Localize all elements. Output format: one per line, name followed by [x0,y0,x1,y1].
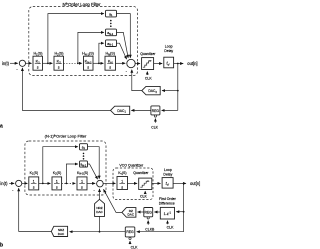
svg-text:-: - [93,188,95,193]
svg-text:Loop: Loop [165,45,173,49]
wire aN-2 out [117,32,129,58]
svg-text:s: s [58,66,60,70]
VCO quantizer dashed box [113,168,153,200]
integrator K2 [52,171,62,190]
svg-text:Quantizer: Quantizer [133,171,149,175]
svg-text:K1(S): K1(S) [30,171,38,176]
junction [47,62,49,64]
svg-text:HN-1(S): HN-1(S) [82,52,94,57]
wire differencer to REG2 [154,211,160,213]
wire aN-2 out [88,164,98,179]
svg-text:CLK: CLK [167,225,174,229]
wire DAC1 to S1 [22,68,110,111]
integrator Kv [117,171,128,190]
wire in [10,62,18,64]
tap wire to aN-2 [66,164,78,183]
svg-text:Loop: Loop [164,168,172,172]
dashed chain wire [62,182,76,184]
differencer 1-z-1 [160,207,174,219]
junction [98,62,100,64]
wire S1 to H1 [26,62,32,64]
tap wire to aN-2 [78,32,104,63]
wire HN to summer S2 [116,62,126,64]
svg-text:Difference: Difference [159,201,175,205]
svg-text:DAC: DAC [128,213,135,217]
tap wire to a1 [43,147,78,184]
feedback wire down [177,64,179,111]
svg-text:Delay: Delay [163,173,172,177]
wire REG3 to NRZ DAC2 [70,231,126,233]
svg-text:in(t): in(t) [0,181,8,186]
svg-text:td: td [166,61,169,67]
svg-text:-: - [16,66,18,71]
svg-text:First Order: First Order [159,197,177,201]
wire REG2 to RZ DAC [138,211,144,213]
wire NRZ DAC2 to S3 [19,188,52,231]
NRZ DAC horizontal [51,226,67,236]
svg-text:1: 1 [121,179,123,183]
wire quantizer to loop delay [154,63,163,65]
svg-text:1: 1 [56,180,58,184]
svg-text:HN(S): HN(S) [105,52,114,57]
wire S2 to quantizer [135,63,140,65]
coefficient aN-1 [106,40,117,47]
integrator H2 [54,52,64,71]
dots [83,153,85,155]
loop delay U4 [162,168,173,188]
svg-text:-: - [12,187,14,192]
svg-text:s: s [109,66,111,70]
junction [177,90,179,92]
svg-text:KN-1(S): KN-1(S) [77,171,88,176]
quantizer U3 [133,171,151,190]
integrator H1 [33,52,43,71]
svg-text:in(t): in(t) [2,61,10,66]
svg-text:s: s [56,186,58,190]
wire a1 out [117,14,131,58]
svg-text:b: b [0,242,3,248]
junction [77,62,79,64]
svg-text:Kv(S): Kv(S) [118,171,126,176]
loop filter dashed box (b) [25,141,106,195]
wire NRZ DAC down [99,216,101,231]
junction [183,211,185,213]
CLK of differencer [167,221,169,225]
svg-text:REG: REG [126,230,134,234]
wire K1 to K2 [39,182,51,184]
wire REG to DAC1 [131,109,151,111]
svg-text:s: s [121,185,123,189]
wire to out [173,182,186,184]
CLKB of REG2 [147,221,149,225]
wire DAC2 to S2 [132,70,142,91]
wire in [9,182,14,184]
svg-text:DAC: DAC [58,232,65,236]
coefficient a1 [106,10,117,17]
wire S4 to Kv [103,182,115,184]
register REG3 [125,227,135,240]
svg-text:a: a [0,123,3,129]
svg-text:Delay: Delay [164,49,173,53]
register REG2 [144,208,153,219]
quantizer U1 [140,52,156,69]
loop delay U2 [164,45,174,68]
wire to DAC2 [162,90,178,92]
tap wire to a1 [48,14,104,64]
svg-text:s: s [33,186,35,190]
wire to differencer [176,211,183,213]
svg-text:out[n]: out[n] [190,181,200,186]
svg-text:(N-1)thOrder Loop Filter: (N-1)thOrder Loop Filter [45,133,87,138]
wire H1 to H2 [43,62,53,64]
svg-text:REG: REG [152,109,160,113]
svg-text:CLK: CLK [131,245,138,249]
junction [177,63,179,65]
wire quantizer to loop delay [152,182,161,184]
svg-text:REG: REG [145,211,153,215]
wire RZ DAC to S4 [104,189,122,212]
svg-text:CLKB: CLKB [145,228,155,232]
wire NRZ DAC to S4 [99,189,101,199]
integrator HN [105,52,116,71]
wire KN-1 to S4 [87,182,95,184]
coefficient aN-2 (b) [80,161,88,168]
svg-text:CLK: CLK [151,126,158,130]
wire Kv to quantizer [128,182,138,184]
svg-text:CLK: CLK [145,76,152,80]
svg-text:CLK: CLK [140,195,147,199]
wire to out [174,63,184,65]
CLK of REG3 [129,241,131,244]
coefficient a1 (b) [80,144,88,151]
tap wire to aN-1 [99,43,104,63]
svg-text:H2(S): H2(S) [54,52,63,57]
svg-text:Quantizer: Quantizer [140,52,156,56]
svg-text:K2(S): K2(S) [53,171,61,176]
bottom feedback wire to REG3 [137,231,184,233]
summer S1 [19,60,25,66]
wire HN-1 to HN [93,62,103,64]
svg-text:out[n]: out[n] [187,61,197,66]
svg-text:s: s [81,186,83,190]
CLK of VCO quantizer [144,191,146,194]
svg-text:1: 1 [33,180,35,184]
feedback wire down [183,183,185,231]
DAC2 [142,86,160,94]
svg-text:VCO Quantizer: VCO Quantizer [119,163,144,167]
svg-text:NthOrder Loop Filter: NthOrder Loop Filter [62,2,101,7]
loop filter dashed box (a) [29,7,138,76]
svg-text:-: - [126,68,128,73]
coefficient aN-2 [106,29,117,36]
integrator KN-1 [77,171,88,190]
dashed chain wire [64,62,83,64]
junction [99,231,101,233]
register REG [151,106,160,117]
summer S4 [97,180,104,187]
DAC1 [111,106,130,114]
wire aN-1 out [117,43,127,59]
svg-text:s: s [87,66,89,70]
svg-text:H1(S): H1(S) [33,52,42,57]
summer S2 [127,59,135,67]
CLK of quantizer [146,72,148,76]
svg-text:DAC: DAC [96,210,103,214]
wire a1 out [88,147,100,179]
svg-text:s: s [37,66,39,70]
CLK of REG [154,119,156,123]
wire feedback into REG [162,109,178,111]
junction [42,183,44,185]
summer S3 [16,180,22,186]
RZ DAC [122,208,136,218]
wire S3 to K1 [22,182,28,184]
dots [110,20,112,22]
junction [183,183,185,185]
svg-text:td: td [166,181,169,187]
junction [66,183,68,185]
integrator K1 [29,171,39,190]
NRZ DAC vertical [95,199,105,216]
svg-text:1: 1 [81,180,83,184]
integrator HN-1 [82,52,94,71]
